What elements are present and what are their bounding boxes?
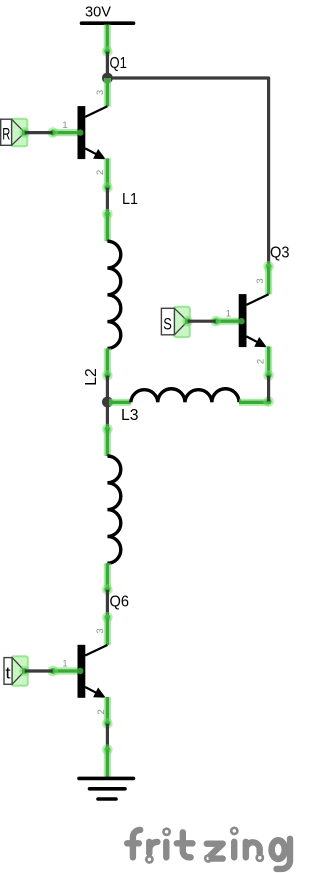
svg-text:2: 2 <box>96 709 107 714</box>
L1 top pin <box>104 214 111 241</box>
t tip endpoint <box>19 666 30 677</box>
svg-text:S: S <box>163 314 172 333</box>
svg-text:t: t <box>5 663 10 682</box>
svg-text:2: 2 <box>95 170 106 175</box>
svg-text:Q6: Q6 <box>110 594 130 611</box>
Q6 base endpoint <box>47 666 58 677</box>
wire <box>106 724 109 750</box>
L3 right pin <box>239 399 269 406</box>
Q3 body <box>239 294 247 347</box>
svg-text:1: 1 <box>62 659 67 670</box>
t highlight <box>12 656 28 686</box>
svg-text:R: R <box>2 124 10 143</box>
svg-text:30V: 30V <box>85 5 111 21</box>
Q6 base contact <box>77 668 83 674</box>
wire <box>25 669 53 672</box>
z <box>207 844 223 859</box>
t triangle <box>12 658 25 685</box>
inductor L1 <box>102 214 121 381</box>
Q3 emitter pin 2 <box>265 346 272 375</box>
endpoint <box>102 424 113 435</box>
Q3 base endpoint <box>210 316 221 327</box>
L2 top pin <box>104 429 111 456</box>
L2 bottom endpoint <box>102 584 113 595</box>
svg-text:L3: L3 <box>121 407 139 424</box>
S box <box>161 308 174 335</box>
Q3 emitter endpoint <box>263 370 274 381</box>
Q3 collector pin 3 <box>265 266 272 294</box>
ground <box>79 750 134 800</box>
inductor L3 <box>109 389 274 407</box>
L1 bottom pin <box>104 348 111 375</box>
svg-text:1: 1 <box>226 309 231 320</box>
S triangle <box>174 308 187 335</box>
Q1 base endpoint <box>47 127 58 138</box>
L2 coil <box>107 456 120 563</box>
wire <box>106 402 109 429</box>
L3 left pin <box>109 399 131 406</box>
node junction top <box>102 73 113 84</box>
n <box>246 842 260 858</box>
wire <box>107 78 268 266</box>
L3 coil <box>131 389 239 403</box>
svg-text:L2: L2 <box>83 368 100 386</box>
Q6 emitter pin 2 <box>104 697 111 724</box>
net label S <box>161 307 193 337</box>
R tip endpoint <box>19 127 30 138</box>
wire <box>106 376 109 403</box>
wire <box>106 590 109 618</box>
ground bars <box>79 777 134 781</box>
wire <box>188 320 216 323</box>
Q3 collector endpoint <box>263 261 274 272</box>
node junction L2/L3 <box>102 397 113 408</box>
fritzing watermark <box>127 828 290 869</box>
svg-text:Q3: Q3 <box>270 245 290 262</box>
R triangle <box>12 119 25 145</box>
i1 <box>163 842 169 858</box>
Q6 emitter endpoint <box>102 718 113 729</box>
Q1 emitter endpoint <box>102 182 113 193</box>
transistor Q6 <box>47 617 112 729</box>
L1 bottom endpoint <box>102 370 113 381</box>
L1 coil <box>107 241 120 348</box>
power symbol 30V bar <box>82 21 134 25</box>
endpoint <box>102 46 113 57</box>
Q6 collector pin 3 <box>104 617 111 645</box>
transistor Q3 <box>210 261 274 381</box>
Q6 base pin 1 <box>53 667 80 674</box>
R highlight <box>11 119 27 147</box>
svg-text:3: 3 <box>95 628 106 633</box>
t box <box>4 658 12 685</box>
t <box>183 832 191 857</box>
f <box>133 830 140 857</box>
wire <box>106 188 109 215</box>
Q6 body <box>78 645 86 698</box>
svg-text:2: 2 <box>256 359 267 364</box>
Q1 collector pin 3 <box>104 78 111 106</box>
wire <box>25 131 53 134</box>
Q1 emitter pin 2 <box>104 158 111 187</box>
wire <box>106 52 109 79</box>
ground pin <box>104 750 111 779</box>
svg-text:L1: L1 <box>122 191 138 208</box>
net label t <box>4 656 30 686</box>
Q3 base pin 1 <box>216 318 242 325</box>
endpoint <box>102 612 113 623</box>
Q3 base contact <box>238 318 244 324</box>
r <box>149 842 157 854</box>
svg-text:3: 3 <box>255 278 266 283</box>
Q1 base pin 1 <box>53 129 80 136</box>
endpoint <box>102 744 113 755</box>
S tip endpoint <box>182 316 193 327</box>
transistor Q1 <box>47 78 112 193</box>
net label R <box>1 119 30 147</box>
svg-text:Q1: Q1 <box>110 55 127 72</box>
svg-text:3: 3 <box>95 90 106 95</box>
power pin <box>104 25 111 52</box>
Q1 body <box>78 106 86 159</box>
L2 bottom pin <box>104 563 111 590</box>
Q1 base contact <box>77 129 83 135</box>
R box <box>1 119 12 145</box>
L3 right endpoint <box>263 396 274 407</box>
S highlight <box>174 307 190 337</box>
g <box>272 840 285 859</box>
svg-text:1: 1 <box>62 120 67 131</box>
i2 <box>231 842 237 858</box>
endpoint <box>102 209 113 220</box>
inductor L2 <box>102 429 121 595</box>
wire <box>267 376 270 402</box>
